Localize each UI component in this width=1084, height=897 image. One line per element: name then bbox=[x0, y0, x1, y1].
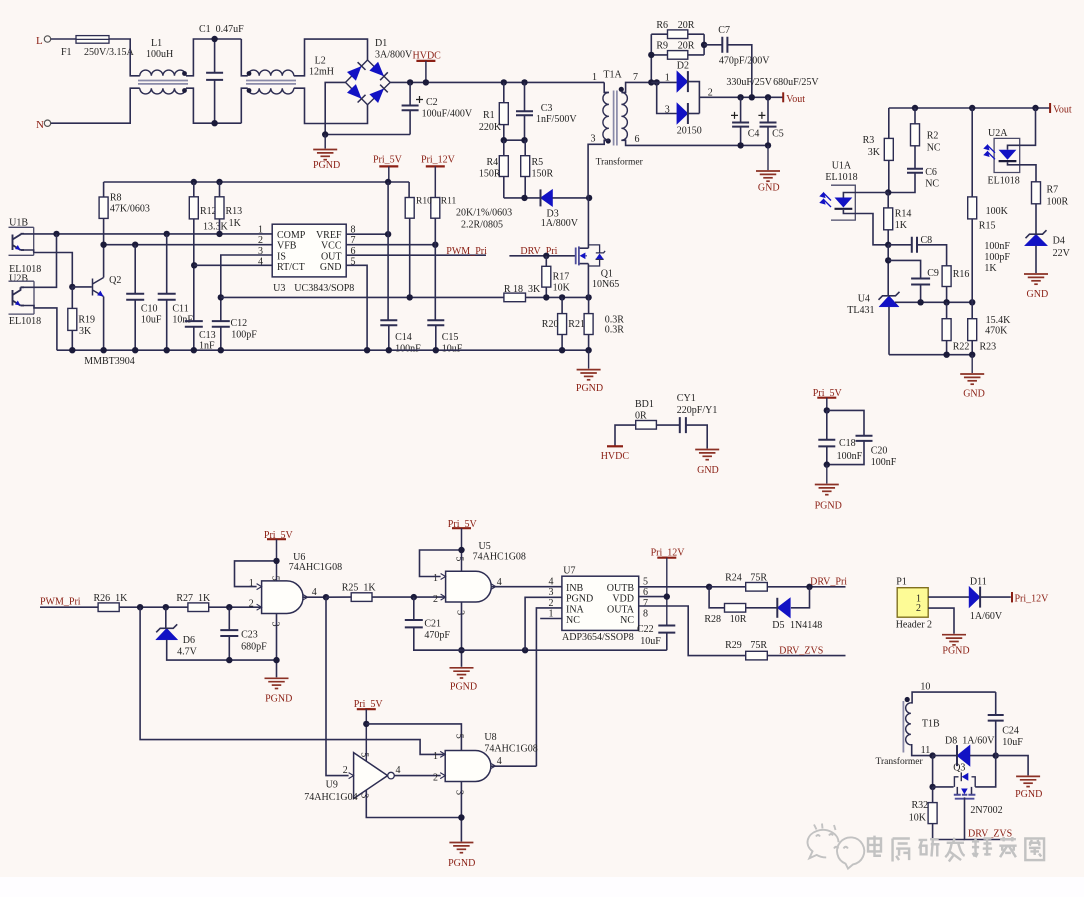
inductor L2 top winding bbox=[248, 70, 294, 76]
ground GND cy1 bbox=[695, 450, 719, 460]
DRV wire to gate bbox=[509, 255, 575, 257]
svg-text:U4: U4 bbox=[858, 294, 870, 305]
zener diode D6 bbox=[156, 624, 178, 640]
svg-text:75R: 75R bbox=[750, 640, 767, 651]
svg-text:1nF/500V: 1nF/500V bbox=[536, 114, 577, 125]
COMP wire bbox=[24, 233, 272, 235]
L1 bottom phase dot bbox=[182, 88, 187, 93]
U2A emit arrows bbox=[985, 145, 996, 159]
resistor R11 bbox=[431, 198, 440, 219]
svg-text:1: 1 bbox=[433, 751, 438, 762]
T1B winding bbox=[906, 703, 911, 745]
svg-text:5: 5 bbox=[270, 576, 281, 581]
svg-text:2: 2 bbox=[258, 235, 263, 246]
svg-text:2: 2 bbox=[708, 88, 713, 99]
R10 top lead bbox=[408, 182, 410, 198]
Q2 emitter lead bbox=[103, 297, 105, 351]
U6 feedback loop bbox=[235, 561, 277, 587]
optocoupler U2B box bbox=[9, 281, 35, 314]
svg-text:VDD: VDD bbox=[612, 594, 634, 605]
optocoupler U1A box bbox=[831, 185, 855, 220]
Pri_5V top bar bbox=[379, 165, 398, 167]
ground PGND u6 bbox=[265, 678, 289, 688]
resistor R3 bbox=[884, 138, 893, 160]
junction R19 gnd bbox=[69, 347, 75, 353]
svg-text:R23: R23 bbox=[980, 342, 997, 353]
wire R3 top lead bbox=[888, 108, 890, 138]
svg-text:L: L bbox=[36, 35, 43, 47]
svg-text:GND: GND bbox=[697, 465, 719, 476]
pin11 wire to D8 bbox=[933, 755, 957, 757]
svg-text:10uF: 10uF bbox=[640, 636, 661, 647]
svg-text:VCC: VCC bbox=[321, 241, 342, 252]
wire C2 bottom lead bbox=[409, 110, 411, 134]
svg-text:Q2: Q2 bbox=[109, 275, 121, 286]
wire C13 bottom lead bbox=[193, 327, 195, 350]
Q1 drain vertical bbox=[587, 198, 589, 248]
svg-text:N: N bbox=[36, 119, 44, 131]
junction RTCT bbox=[191, 262, 197, 268]
svg-text:T1B: T1B bbox=[922, 719, 940, 730]
wire C20 bottom bbox=[827, 441, 864, 465]
svg-text:C23: C23 bbox=[241, 630, 258, 641]
U7 ina wire bbox=[536, 608, 562, 766]
junction drain node bbox=[586, 195, 592, 201]
wire C9 bottom lead bbox=[920, 285, 922, 303]
Pri_12V top stem bbox=[434, 166, 436, 197]
svg-text:Header 2: Header 2 bbox=[896, 619, 932, 630]
svg-text:PGND: PGND bbox=[1015, 789, 1042, 800]
junction U8 gnd bbox=[458, 814, 464, 820]
resistor R15 bbox=[968, 197, 977, 219]
svg-text:RT/CT: RT/CT bbox=[277, 262, 305, 273]
U6 out wire bbox=[302, 596, 326, 598]
U1A anode wire bbox=[843, 193, 888, 198]
GND pin5 wire bbox=[346, 265, 367, 350]
svg-text:VREF: VREF bbox=[316, 230, 342, 241]
svg-text:U8: U8 bbox=[484, 732, 496, 743]
resistor R23 bbox=[968, 319, 977, 341]
svg-text:10: 10 bbox=[920, 682, 930, 693]
svg-text:DRV_Pri: DRV_Pri bbox=[810, 577, 847, 588]
wire D2 upper cathode bbox=[688, 82, 699, 114]
svg-text:HVDC: HVDC bbox=[601, 451, 630, 462]
svg-text:10uF: 10uF bbox=[1002, 737, 1023, 748]
junction C5 bottom bbox=[765, 142, 771, 148]
TL431 anode lead bbox=[888, 307, 890, 355]
junction U6 vcc bbox=[273, 558, 279, 564]
VFB wire bbox=[104, 244, 273, 246]
junction C7 bottom bbox=[749, 94, 755, 100]
resistor R24 bbox=[746, 583, 768, 592]
svg-text:1K: 1K bbox=[895, 220, 908, 231]
wire D2 lower branch bbox=[657, 82, 677, 113]
driver U7 ADP3654 box bbox=[562, 576, 639, 630]
watermark logo bbox=[808, 824, 865, 869]
svg-text:U2A: U2A bbox=[988, 128, 1008, 139]
U1A LED bbox=[835, 198, 853, 209]
svg-text:R28: R28 bbox=[704, 614, 721, 625]
svg-text:7: 7 bbox=[633, 72, 638, 83]
junction Q2 base node bbox=[69, 284, 75, 290]
R32 bottom lead bbox=[933, 824, 965, 840]
svg-text:680uF/25V: 680uF/25V bbox=[773, 77, 819, 88]
fb gnd stem bbox=[971, 355, 973, 373]
wire R17 top lead bbox=[545, 256, 547, 266]
svg-text:U1A: U1A bbox=[832, 161, 852, 172]
VCC pin7 wire bbox=[346, 244, 435, 246]
wire R12 bottom lead bbox=[193, 219, 195, 321]
svg-text:3: 3 bbox=[591, 134, 596, 145]
Q3 legs bbox=[957, 787, 971, 794]
svg-text:4: 4 bbox=[549, 577, 554, 588]
svg-text:75R: 75R bbox=[750, 573, 767, 584]
svg-text:C10: C10 bbox=[141, 304, 158, 315]
transistor Q2 bbox=[93, 278, 104, 297]
svg-text:1A/800V: 1A/800V bbox=[541, 218, 579, 229]
svg-text:20R: 20R bbox=[678, 20, 695, 31]
svg-text:0R: 0R bbox=[635, 410, 647, 421]
R25 left wire bbox=[326, 596, 351, 598]
svg-text:OUTA: OUTA bbox=[607, 604, 635, 615]
junction R21 gnd bbox=[585, 347, 591, 353]
U1B phototransistor bbox=[13, 234, 25, 250]
wire R6R9 left vertical bbox=[650, 34, 652, 82]
optocoupler U2A box bbox=[994, 138, 1020, 172]
svg-text:680pF: 680pF bbox=[241, 642, 267, 653]
svg-text:HVDC: HVDC bbox=[413, 50, 442, 61]
wire C1 top lead bbox=[214, 39, 216, 73]
svg-text:100nF: 100nF bbox=[395, 344, 421, 355]
svg-text:U7: U7 bbox=[563, 566, 575, 577]
svg-text:R11: R11 bbox=[441, 197, 457, 207]
capacitor C15 bbox=[427, 320, 444, 325]
resistor R19 bbox=[68, 308, 77, 330]
P1 pin2 wire bbox=[928, 608, 954, 634]
T1A core bbox=[614, 91, 617, 146]
port N circle bbox=[44, 120, 50, 126]
capacitor C13 bbox=[185, 321, 203, 327]
wire R8 bottom lead bbox=[103, 218, 105, 244]
U2B phototransistor bbox=[13, 287, 25, 305]
HVDC bar bbox=[416, 60, 435, 62]
ground PGND c18 bbox=[815, 485, 839, 495]
svg-text:Pri_12V: Pri_12V bbox=[1015, 594, 1050, 605]
transistor Q3 channel bbox=[954, 794, 976, 796]
pgnd q1 stem bbox=[588, 350, 590, 368]
U2A LED bbox=[999, 150, 1017, 161]
wire D3 to drain node bbox=[553, 197, 590, 199]
svg-text:GND: GND bbox=[758, 183, 780, 194]
wire C8 left bbox=[888, 244, 912, 246]
diode D2 upper bbox=[677, 71, 688, 92]
svg-text:EL1018: EL1018 bbox=[9, 316, 41, 327]
junction C15 gnd bbox=[433, 347, 439, 353]
junction D6 branch bbox=[163, 604, 169, 610]
wire R13 top lead bbox=[219, 182, 221, 197]
pgnd c18 stem bbox=[826, 465, 828, 484]
bridge diode left-bottom bbox=[347, 84, 366, 102]
svg-text:15.4K: 15.4K bbox=[986, 315, 1012, 326]
svg-text:150R: 150R bbox=[479, 169, 501, 180]
svg-text:220K: 220K bbox=[479, 122, 502, 133]
svg-text:C22: C22 bbox=[637, 624, 654, 635]
wire C18 top lead bbox=[826, 410, 828, 439]
junction D8 C24 bbox=[993, 752, 999, 758]
diode D2 lower bbox=[677, 103, 688, 124]
Pri_5V u8 stem bbox=[365, 709, 367, 761]
svg-text:74AHC1G08: 74AHC1G08 bbox=[473, 552, 526, 563]
wire rail to L2 top bbox=[241, 39, 247, 76]
U8 vcc wire bbox=[366, 724, 461, 751]
wire C5 top lead bbox=[767, 97, 769, 122]
junction snubber mid R bbox=[521, 137, 527, 143]
svg-text:NC: NC bbox=[566, 615, 580, 626]
svg-text:D5: D5 bbox=[772, 620, 784, 631]
capacitor C5 bbox=[760, 123, 777, 127]
diode D8 bbox=[957, 745, 970, 766]
wire R21 bottom lead bbox=[588, 335, 590, 351]
svg-text:R2: R2 bbox=[927, 130, 939, 141]
junction U6 out bbox=[323, 594, 329, 600]
fuse F1 bbox=[76, 36, 109, 44]
wire C3 top lead bbox=[524, 82, 526, 111]
diode D3 bbox=[541, 189, 553, 206]
PWM wire seg3 bbox=[209, 606, 262, 608]
resistor R32 bbox=[928, 803, 937, 824]
svg-text:0.3R: 0.3R bbox=[605, 325, 625, 336]
U5 in2 wedge bbox=[441, 594, 446, 600]
junction R2 top bbox=[912, 105, 918, 111]
svg-text:C24: C24 bbox=[1002, 726, 1019, 737]
wire R17 bottom lead bbox=[545, 287, 547, 297]
Pri_5V c18 stem bbox=[826, 398, 828, 411]
svg-text:C8: C8 bbox=[921, 235, 933, 246]
junction C11 top bbox=[164, 231, 170, 237]
Pri_12V u7 stem bbox=[666, 558, 668, 626]
resistor R20 bbox=[558, 314, 567, 335]
junction C10 top bbox=[132, 242, 138, 248]
svg-text:R20: R20 bbox=[542, 319, 559, 330]
resistor R26 bbox=[98, 603, 119, 612]
wire C4 top lead bbox=[740, 97, 742, 122]
wire L2 top to bridge bbox=[294, 39, 368, 76]
svg-text:4: 4 bbox=[396, 765, 401, 776]
D11 out wire bbox=[980, 596, 1011, 598]
junction R15 top bbox=[969, 105, 975, 111]
PWM input wire bbox=[40, 606, 98, 608]
resistor R27 bbox=[188, 603, 209, 612]
svg-text:F1: F1 bbox=[61, 47, 72, 58]
ground PGND q1 bbox=[577, 370, 601, 380]
C24 bottom lead bbox=[995, 721, 997, 756]
junction R12 rail bbox=[191, 179, 197, 185]
R28 to D5 bbox=[746, 607, 777, 609]
svg-text:4.7V: 4.7V bbox=[177, 647, 198, 658]
svg-text:R10: R10 bbox=[416, 197, 432, 207]
svg-text:R24: R24 bbox=[725, 573, 742, 584]
svg-text:3K: 3K bbox=[79, 326, 92, 337]
capacitor C10 bbox=[126, 294, 144, 300]
Q3 body diode bbox=[954, 772, 975, 787]
diode D11 bbox=[969, 587, 980, 608]
svg-text:VFB: VFB bbox=[277, 241, 297, 252]
capacitor C4 bbox=[732, 123, 749, 127]
U6out to U9 wire bbox=[326, 597, 349, 775]
svg-text:R25 1K: R25 1K bbox=[342, 582, 377, 593]
junction R15 ref bbox=[969, 299, 975, 305]
junction R20 sense bbox=[559, 294, 565, 300]
junction R5 bottom bbox=[521, 195, 527, 201]
Pri_5V c18 bar bbox=[817, 397, 836, 399]
junction C9 ref bbox=[917, 299, 923, 305]
resistor R29 bbox=[746, 651, 768, 660]
svg-text:PGND: PGND bbox=[566, 594, 593, 605]
wire R22 top lead bbox=[946, 302, 948, 318]
wire L port to fuse bbox=[51, 38, 76, 40]
R29 right wire bbox=[767, 655, 845, 657]
junction C4 top bbox=[737, 94, 743, 100]
U2B emitter wire bbox=[24, 306, 57, 351]
Pri_12V port bar bbox=[1011, 592, 1013, 602]
T1B phase dot bbox=[905, 697, 910, 702]
C14 vertical bbox=[387, 234, 389, 320]
R28 branch bbox=[709, 587, 724, 608]
svg-text:2: 2 bbox=[916, 603, 921, 614]
junction C3 top bbox=[521, 79, 527, 85]
R10 bottom lead bbox=[409, 218, 411, 297]
D6 bottom lead bbox=[167, 640, 277, 660]
svg-text:3A/800V: 3A/800V bbox=[375, 49, 413, 60]
inductor L1 core bbox=[138, 81, 188, 84]
svg-text:COMP: COMP bbox=[277, 230, 306, 241]
junction T1B pin11 bbox=[929, 752, 935, 758]
svg-text:5: 5 bbox=[453, 734, 464, 739]
svg-text:PGND: PGND bbox=[942, 646, 969, 657]
svg-text:ADP3654/SSOP8: ADP3654/SSOP8 bbox=[562, 632, 634, 643]
junction VCC bbox=[432, 242, 438, 248]
svg-text:GND: GND bbox=[963, 389, 985, 400]
C23 top lead bbox=[228, 607, 230, 630]
junction C1 top bbox=[211, 36, 217, 42]
junction C13 gnd bbox=[191, 347, 197, 353]
svg-text:R3: R3 bbox=[863, 135, 875, 146]
resistor R9 bbox=[668, 51, 688, 60]
capacitor C24 bbox=[988, 715, 1004, 721]
junction R24 split bbox=[706, 584, 712, 590]
svg-text:12mH: 12mH bbox=[309, 67, 334, 78]
svg-text:R27 1K: R27 1K bbox=[176, 593, 211, 604]
svg-text:D2: D2 bbox=[677, 60, 689, 71]
svg-text:Pri_12V: Pri_12V bbox=[421, 154, 456, 165]
resistor R1 bbox=[499, 103, 508, 125]
IS pin3 wire bbox=[221, 255, 272, 321]
junction C5 top bbox=[765, 94, 771, 100]
junction D2 left2 bbox=[654, 79, 660, 85]
svg-text:GND: GND bbox=[1027, 289, 1049, 300]
svg-text:OUTB: OUTB bbox=[607, 583, 635, 594]
wire R5 top lead bbox=[524, 140, 526, 156]
wire C18 bottom lead bbox=[826, 446, 828, 464]
U8 in1 wedge bbox=[440, 751, 445, 757]
resistor R14 bbox=[884, 208, 893, 230]
svg-text:10nF: 10nF bbox=[172, 315, 193, 326]
wire bridge pos HVDC rail bbox=[390, 81, 604, 83]
U5 gnd stem bbox=[461, 602, 463, 667]
inductor L1 top winding bbox=[140, 70, 186, 76]
wire C8 right bbox=[917, 245, 947, 266]
wire D2 output bbox=[699, 96, 783, 98]
ground PGND t1b bbox=[1016, 776, 1040, 786]
svg-text:10K: 10K bbox=[553, 282, 571, 293]
svg-text:Transformer: Transformer bbox=[876, 756, 924, 767]
wire rail to L2 bottom bbox=[241, 88, 247, 123]
svg-text:100pF: 100pF bbox=[231, 329, 257, 340]
RTCT pin4 wire bbox=[194, 264, 272, 266]
svg-text:Vout: Vout bbox=[786, 94, 805, 105]
svg-text:U9: U9 bbox=[326, 779, 338, 790]
C15 vertical bbox=[434, 245, 436, 321]
junction C18 bottom bbox=[824, 461, 830, 467]
junction U6 gnd bbox=[273, 657, 279, 663]
svg-text:R22: R22 bbox=[953, 342, 970, 353]
wire R6 right bbox=[688, 33, 704, 35]
Vout port bar top bbox=[782, 92, 784, 102]
PWM wire seg2 bbox=[119, 606, 188, 608]
U6 in1 wedge bbox=[257, 584, 262, 590]
Pri_5V u5 bar bbox=[452, 527, 471, 529]
T1B pin11 down bbox=[932, 756, 934, 787]
wire BD1 to CY1 bbox=[656, 424, 679, 426]
svg-text:NC: NC bbox=[927, 143, 941, 154]
junction R9 left bbox=[648, 52, 654, 58]
T1A secondary winding bbox=[621, 92, 627, 140]
wire sec gnd stem bbox=[767, 145, 769, 170]
svg-text:3: 3 bbox=[665, 105, 670, 116]
ground GND d4 bbox=[1024, 274, 1048, 284]
svg-text:U3: U3 bbox=[273, 283, 285, 294]
svg-text:7: 7 bbox=[643, 598, 648, 609]
U9 in wedge bbox=[349, 773, 354, 779]
svg-text:1A/60V: 1A/60V bbox=[970, 611, 1003, 622]
capacitor C9 bbox=[911, 279, 930, 285]
R32 top lead bbox=[932, 787, 934, 803]
main gnd rail bbox=[57, 349, 589, 351]
svg-text:R21: R21 bbox=[568, 319, 585, 330]
svg-text:PWM_Pri: PWM_Pri bbox=[446, 246, 487, 257]
svg-text:3K: 3K bbox=[868, 147, 881, 158]
Q2 base wire bbox=[72, 286, 92, 288]
capacitor C20 bbox=[856, 436, 873, 441]
ground GND secondary bbox=[756, 171, 780, 181]
capacitor C21 bbox=[405, 620, 423, 627]
watermark text dianyuan yanfa jingyingquan bbox=[868, 836, 881, 856]
wire R8 top lead bbox=[103, 182, 105, 197]
Pri_5V u6 bar bbox=[267, 538, 286, 540]
svg-text:3: 3 bbox=[359, 793, 370, 798]
junction U5 vcc bbox=[458, 547, 464, 553]
svg-text:47K/0603: 47K/0603 bbox=[110, 204, 150, 215]
Q3 gate bar bbox=[955, 798, 975, 800]
bridge diode left-top bbox=[347, 62, 366, 80]
bridge rectifier D1 diamond bbox=[346, 60, 391, 105]
svg-text:3: 3 bbox=[270, 622, 281, 627]
svg-text:BD1: BD1 bbox=[635, 399, 654, 410]
ground GND fb bbox=[960, 374, 984, 384]
port L circle bbox=[44, 36, 50, 42]
svg-text:EL1018: EL1018 bbox=[988, 176, 1020, 187]
svg-text:100uH: 100uH bbox=[146, 49, 173, 60]
